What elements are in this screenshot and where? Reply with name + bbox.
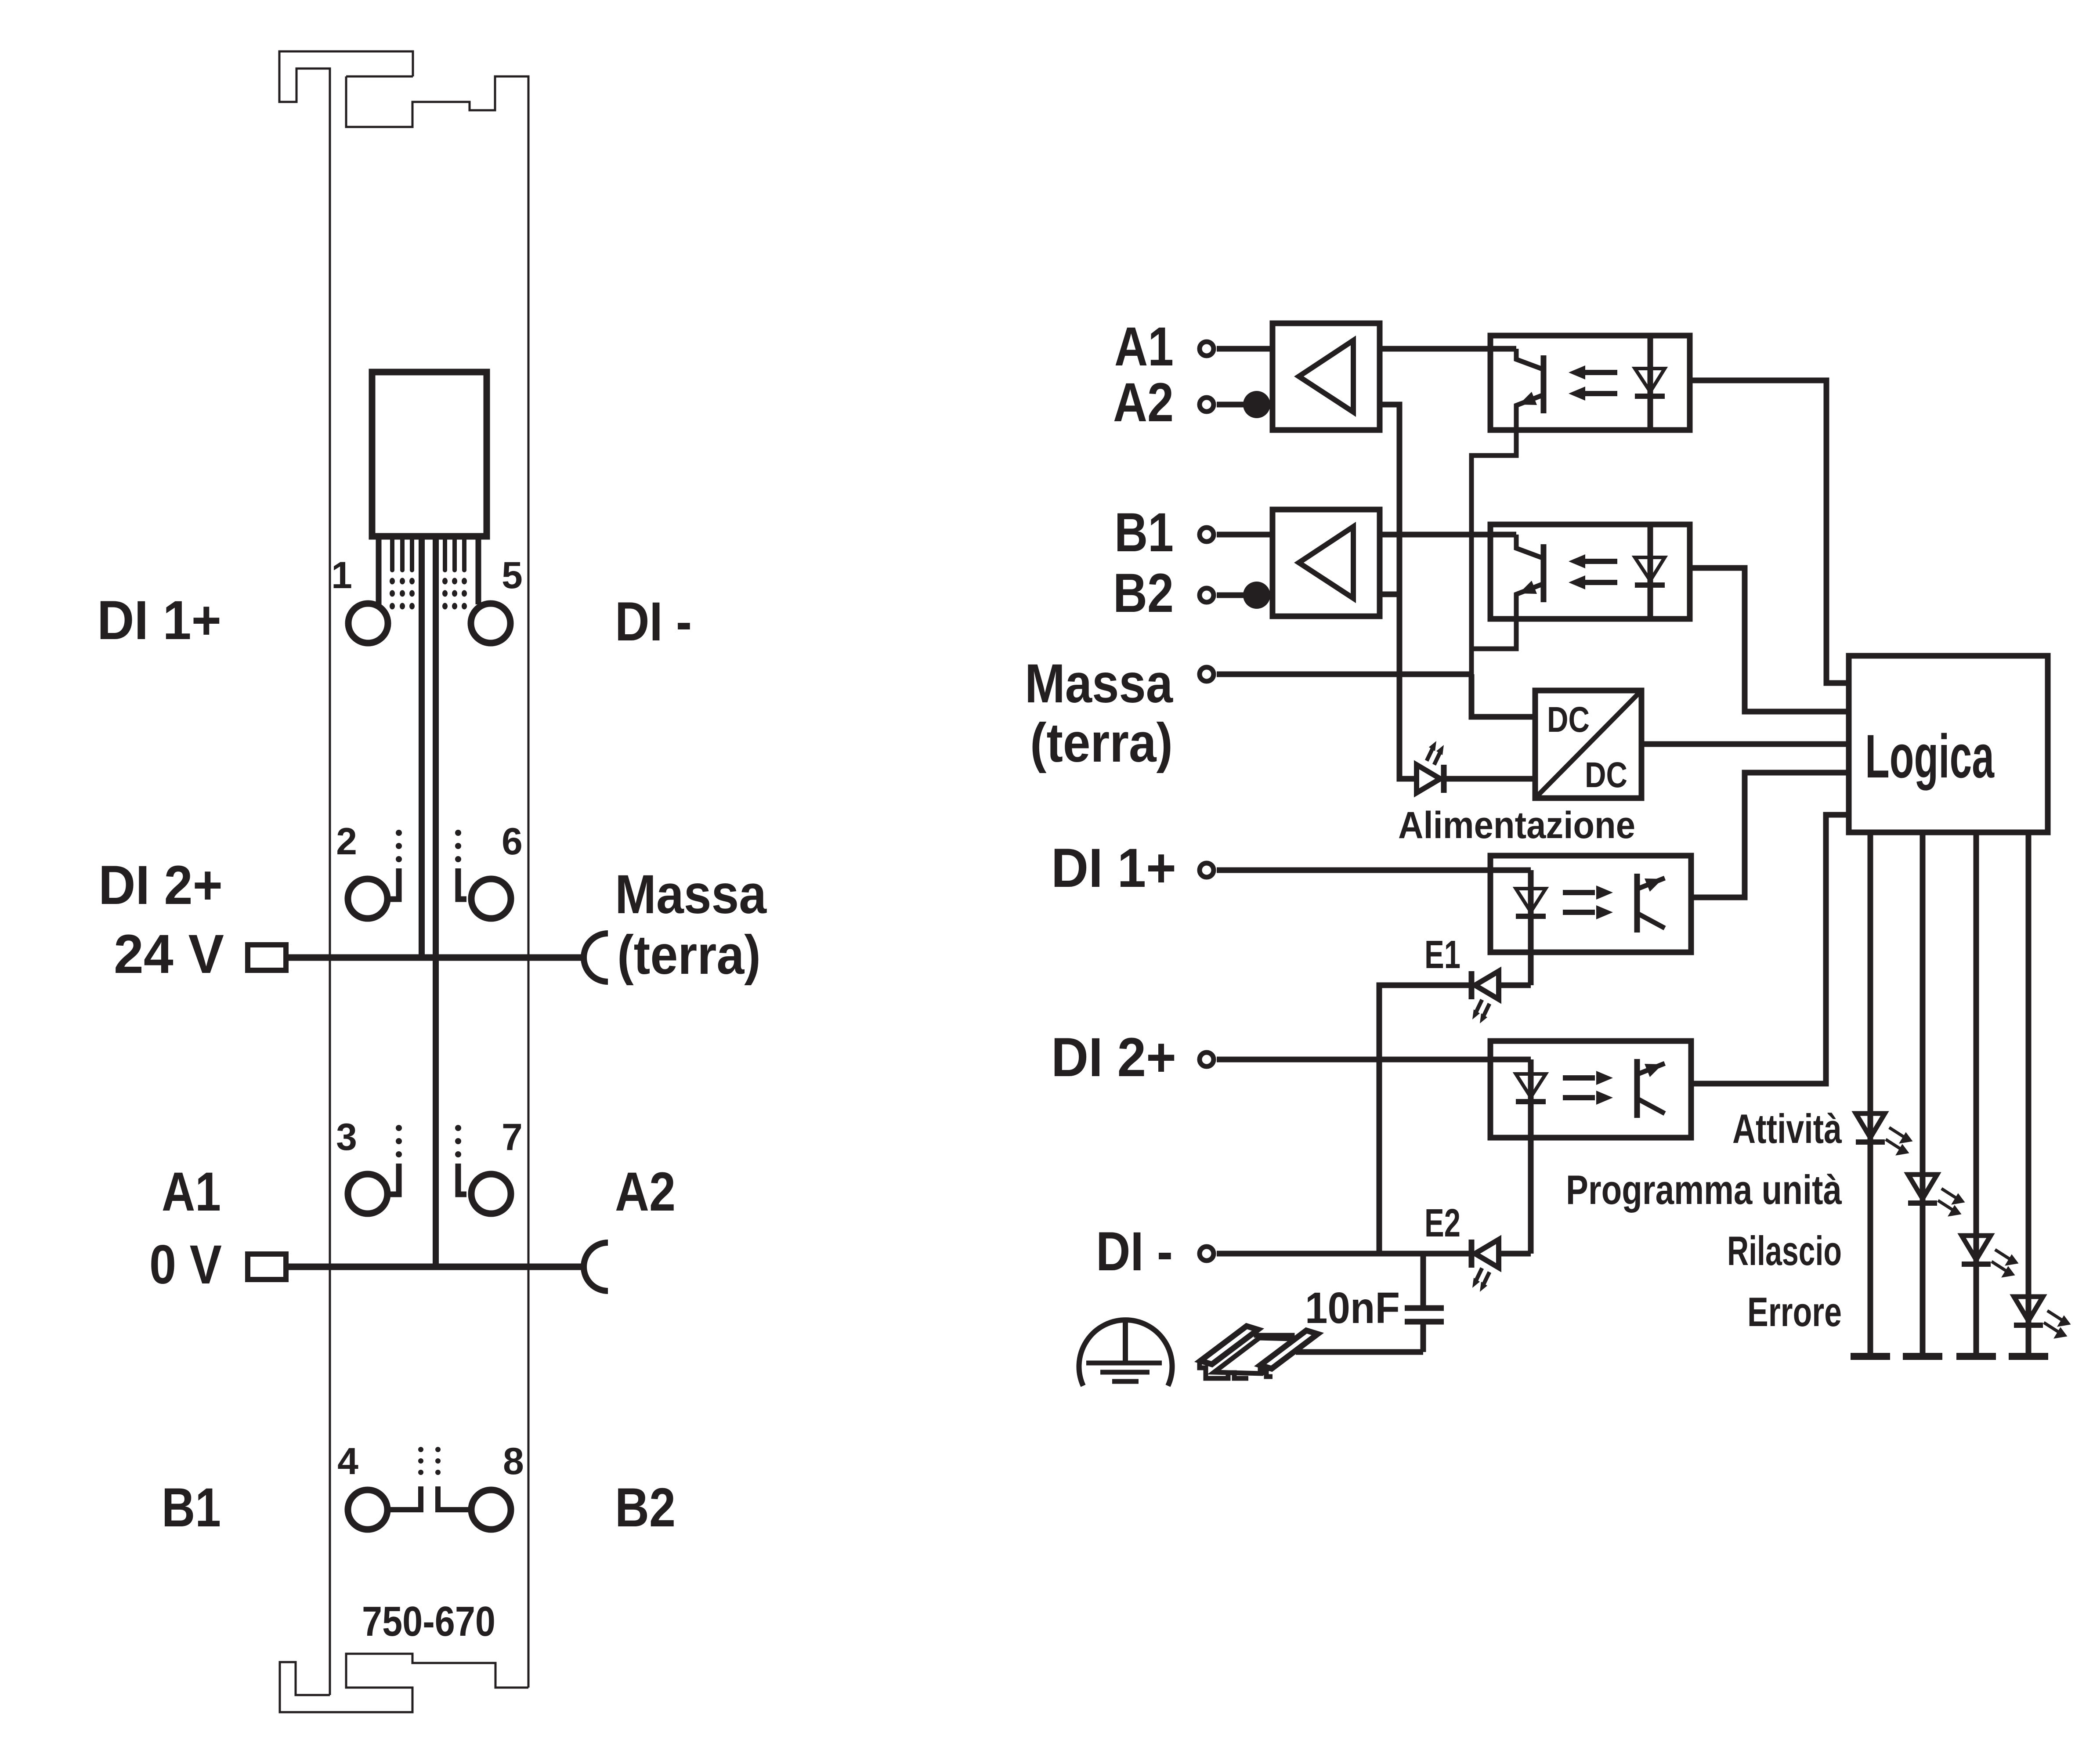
ground symbol (1079, 1320, 1172, 1386)
svg-text:7: 7 (502, 1116, 523, 1158)
connector stub leads right (445, 537, 464, 570)
svg-text:DI 1+: DI 1+ (1051, 838, 1176, 899)
svg-text:E1: E1 (1424, 933, 1460, 977)
line receiver U2 box (1272, 510, 1380, 616)
svg-text:0 V: 0 V (149, 1234, 222, 1295)
svg-text:Alimentazione: Alimentazione (1398, 804, 1635, 846)
terminal A1 (1200, 342, 1214, 356)
opto OK2 led (1635, 524, 1665, 619)
terminal 4 dashes (418, 1447, 423, 1475)
connector stub leads left (392, 537, 412, 570)
svg-text:B2: B2 (1113, 563, 1174, 624)
terminal A2 (1200, 398, 1214, 412)
terminal 6 clamp hook (458, 868, 466, 899)
svg-text:Programma unità: Programma unità (1566, 1167, 1842, 1213)
DIN rail icon (1200, 1326, 1318, 1378)
terminal 2 clamp hook (390, 868, 399, 899)
svg-text:1: 1 (331, 554, 352, 596)
wire A2 return rail (1380, 405, 1417, 779)
opto OK2 box (1490, 524, 1690, 619)
terminal 3 clamp circle (348, 1174, 387, 1214)
LED Programma unita (1908, 1175, 1963, 1215)
svg-text:DC: DC (1585, 755, 1627, 795)
wire OK3 out to Logica (1691, 773, 1849, 897)
terminal B2 (1200, 588, 1214, 602)
svg-text:5: 5 (502, 554, 523, 596)
wire A2 to line receiver (1217, 402, 1272, 408)
wire B1 to line receiver (1217, 532, 1272, 538)
terminal 8 clamp hook (438, 1486, 468, 1510)
line receiver U1 triangle (1299, 340, 1353, 412)
svg-text:6: 6 (502, 821, 523, 863)
wire DI1+ to opto OK3 (1217, 868, 1531, 873)
LEFT: module pictogram (97, 51, 767, 1712)
opto OK3 phototransistor (1637, 874, 1665, 933)
RIGHT: schematic (1025, 316, 2069, 1386)
terminal 6 clamp circle (471, 879, 511, 918)
connector plug body (372, 372, 487, 536)
wire DI2+ to opto OK4 (1217, 1057, 1531, 1063)
wire E1 row (1379, 985, 1531, 1254)
terminal DI - (1200, 1247, 1214, 1261)
LED Errore (2014, 1297, 2069, 1337)
wire OK4 out to Logica (1691, 815, 1849, 1084)
opto OK3 box (1490, 856, 1691, 952)
terminal 8 clamp circle (471, 1490, 511, 1529)
svg-text:B1: B1 (1114, 502, 1174, 563)
wire OK1 out to Logica (1690, 380, 1849, 683)
wire LED to DC/DC (1444, 776, 1535, 782)
svg-text:B2: B2 (615, 1477, 676, 1538)
junction dot B2 (1243, 582, 1270, 609)
opto OK4 phototransistor (1637, 1059, 1665, 1118)
wire 0V horizontal (286, 1264, 584, 1270)
logica output rail 2 (1920, 832, 1926, 1356)
LED E2 (1471, 1240, 1499, 1292)
opto OK2 light arrows (1569, 554, 1617, 589)
svg-text:DI -: DI - (615, 591, 692, 652)
wire cap to DIN rail (1296, 1349, 1423, 1355)
opto OK1 phototransistor (1471, 349, 1544, 674)
svg-text:A2: A2 (615, 1161, 676, 1222)
terminal Massa (terra) (1200, 667, 1214, 681)
line receiver U2 triangle (1299, 527, 1353, 598)
svg-text:DI 2+: DI 2+ (1051, 1027, 1176, 1088)
opto OK1 led (1635, 336, 1665, 430)
terminal 2 dashes (396, 830, 402, 862)
logica output rail 1 (1868, 832, 1873, 1356)
svg-text:B1: B1 (162, 1477, 221, 1538)
terminal 6 dashes (455, 830, 461, 862)
Logica box (1849, 656, 2048, 832)
svg-text:DC: DC (1547, 700, 1590, 740)
svg-text:750-670: 750-670 (362, 1598, 495, 1645)
rail 1 end bar (1851, 1353, 1890, 1360)
LED alimentazione (1417, 741, 1444, 793)
wire 24V bus vertical (419, 537, 425, 958)
svg-text:Massa: Massa (615, 864, 767, 925)
terminal 2 clamp circle (348, 879, 387, 918)
A2 clamp arc (584, 1243, 608, 1291)
opto OK1 box (1490, 336, 1690, 430)
svg-text:2: 2 (336, 821, 357, 863)
module housing outline top (279, 51, 528, 1695)
wire 24V horizontal (286, 954, 584, 961)
terminal 7 clamp circle (471, 1174, 511, 1214)
wire A1 to line receiver (1217, 346, 1272, 352)
wire 0V bus vertical (433, 537, 439, 1267)
opto OK3 light arrows (1563, 886, 1613, 919)
terminal 3 clamp hook (390, 1164, 399, 1194)
svg-text:A1: A1 (162, 1161, 221, 1222)
wire DI- row (1217, 1251, 1531, 1257)
svg-text:DI 1+: DI 1+ (97, 590, 221, 651)
terminal 1 clamp circle (348, 604, 388, 643)
wire B2 to line receiver (1217, 593, 1272, 598)
svg-text:DI -: DI - (1096, 1221, 1173, 1282)
Massa clamp arc (584, 933, 608, 982)
capacitor 10nF (1405, 1254, 1444, 1352)
24V field terminal square (248, 945, 286, 970)
connector lead to terminal 5 (476, 537, 481, 604)
DC/DC diagonal (1535, 690, 1641, 798)
svg-text:Attività: Attività (1732, 1106, 1842, 1152)
opto OK3 led (1516, 870, 1546, 985)
terminal 5 clamp circle (471, 604, 510, 643)
LED E1 (1471, 971, 1499, 1023)
line receiver U1 box (1272, 323, 1380, 430)
wire emitter rail to DC/DC (1471, 674, 1535, 717)
module housing outline bottom (280, 1654, 528, 1712)
rail 4 end bar (2009, 1353, 2048, 1360)
svg-text:3: 3 (336, 1116, 357, 1158)
terminal DI 2+ (1200, 1052, 1214, 1066)
connector lead to terminal 1 (376, 537, 382, 604)
svg-text:24 V: 24 V (114, 924, 224, 985)
opto OK4 light arrows (1563, 1071, 1613, 1105)
logica output rail 4 (2026, 832, 2032, 1356)
svg-text:8: 8 (503, 1440, 524, 1482)
opto OK4 led (1516, 1059, 1546, 1254)
terminal 4 clamp hook (390, 1486, 421, 1510)
LED Rilascio (1962, 1236, 2017, 1276)
LED Attivita (1856, 1113, 1911, 1154)
junction dot A2 (1243, 391, 1270, 418)
svg-text:Logica: Logica (1865, 722, 1995, 791)
opto OK1 light arrows (1569, 365, 1617, 401)
terminal 4 clamp circle (348, 1490, 387, 1529)
rail 2 end bar (1903, 1353, 1942, 1360)
svg-text:E2: E2 (1424, 1201, 1460, 1245)
svg-text:A2: A2 (1113, 372, 1174, 433)
logica output rail 3 (1974, 832, 1979, 1356)
svg-text:A1: A1 (1114, 316, 1174, 377)
hidden-wire dot grid right (442, 578, 467, 610)
opto OK2 phototransistor (1471, 535, 1544, 649)
terminal DI 1+ (1200, 863, 1214, 877)
wire U1 out to opto OK1 (1380, 346, 1516, 352)
svg-text:10nF: 10nF (1305, 1283, 1400, 1333)
svg-text:(terra): (terra) (617, 925, 761, 986)
wire U2 out to opto OK2 (1380, 532, 1516, 538)
svg-text:Errore: Errore (1747, 1289, 1842, 1335)
0V field terminal square (248, 1254, 286, 1280)
svg-text:Massa: Massa (1025, 653, 1173, 714)
wire DC/DC out to Logica (1641, 741, 1849, 747)
svg-text:DI 2+: DI 2+ (98, 855, 223, 916)
rail 3 end bar (1956, 1353, 1996, 1360)
svg-text:(terra): (terra) (1030, 712, 1173, 774)
wire Massa to emitter rail (1217, 672, 1471, 677)
terminal 3 dashes (396, 1125, 402, 1157)
opto OK4 box (1490, 1041, 1691, 1138)
terminal B1 (1200, 528, 1214, 542)
terminal 7 dashes (455, 1125, 461, 1157)
wire OK2 out to Logica (1690, 568, 1849, 712)
terminal 8 dashes (435, 1447, 441, 1475)
hidden-wire dot grid left (390, 578, 415, 610)
terminal 7 clamp hook (458, 1164, 466, 1194)
svg-text:Rilascio: Rilascio (1727, 1228, 1842, 1274)
wire B2 return join (1380, 592, 1399, 597)
svg-text:4: 4 (337, 1440, 358, 1482)
DC/DC converter box (1535, 690, 1641, 798)
